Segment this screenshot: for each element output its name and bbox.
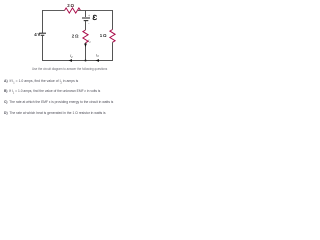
svg-text:I2: I2 [70, 54, 73, 59]
wire: middle lower with current arrow [85, 43, 87, 61]
wire: left vertical lower [42, 36, 44, 61]
svg-text:2 Ω: 2 Ω [72, 33, 79, 38]
wire: bottom [42, 60, 113, 62]
wire: top left segment [42, 10, 65, 12]
svg-text:I1: I1 [88, 39, 91, 44]
svg-text:4 V: 4 V [34, 32, 40, 37]
svg-text:+: + [88, 14, 90, 18]
current arrowhead (down) [84, 44, 87, 48]
question D [4, 111, 106, 115]
junction node at middle-bottom [85, 60, 87, 62]
wire: right vertical top [112, 10, 114, 30]
wire: middle between battery and resistor [85, 21, 87, 30]
question A [4, 79, 78, 85]
circuit schematic [0, 0, 136, 125]
current arrow I3 (bottom right segment, pointing left) [96, 59, 100, 62]
wire: top right segment [78, 10, 113, 12]
label EMF epsilon [93, 15, 96, 19]
svg-text:-: - [88, 22, 89, 26]
resistor R1 2ohm (top horizontal) [65, 8, 81, 13]
svg-text:1 Ω: 1 Ω [100, 33, 107, 38]
svg-text:I3: I3 [96, 53, 99, 58]
question B [4, 89, 100, 95]
svg-text:2 Ω: 2 Ω [67, 3, 74, 8]
resistor R2 2ohm (middle vertical) [83, 30, 88, 43]
resistor R3 1ohm (right vertical) [110, 30, 115, 43]
wire: left vertical [42, 10, 44, 33]
question C [4, 100, 113, 104]
wire: right vertical bottom [112, 42, 114, 61]
battery EMF (middle branch) [82, 17, 90, 19]
battery B1 4V [39, 32, 46, 34]
caption: Use the circuit diagram ... [32, 67, 107, 71]
current arrow I2 (bottom left segment, pointing left) [69, 59, 73, 62]
wire: middle vertical top [85, 10, 87, 17]
